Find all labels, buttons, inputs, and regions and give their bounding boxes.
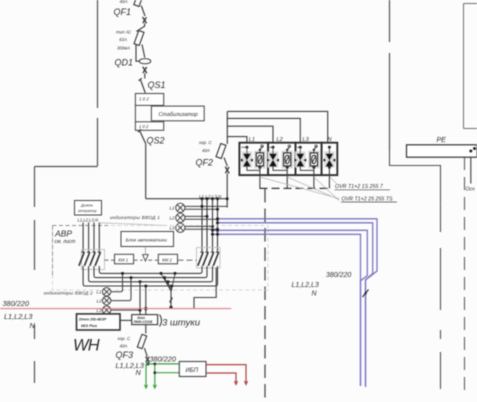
wire meter feed: [139, 282, 141, 315]
panel boundary dashed line (lower left): [34, 167, 36, 384]
breaker QF1: [134, 0, 147, 23]
svg-text:КЕS Plus: КЕS Plus: [81, 324, 97, 328]
wire lamp HL5 to row B: [111, 278, 131, 301]
svg-text:L1: L1: [97, 290, 102, 295]
svg-text:OVR Т1+2 1S 255 7: OVR Т1+2 1S 255 7: [335, 184, 384, 190]
wire linking QS1 and QS2 boxes: [134, 105, 136, 121]
breaker QF3: [137, 334, 149, 362]
leader lines to OVR labels: [260, 177, 339, 201]
wire green return: [155, 372, 180, 374]
brace: [160, 315, 162, 327]
wire transducer to QF3: [145, 325, 147, 334]
diesel generator box: [75, 201, 102, 216]
svg-text:индикаторы ВВОД 1: индикаторы ВВОД 1: [110, 215, 160, 220]
panel boundary dashed line (upper right): [389, 0, 391, 150]
wire QF3 feed: [145, 286, 147, 315]
lamp HL3: [176, 223, 185, 232]
breaker QF2: [216, 143, 229, 173]
svg-text:тип АС: тип АС: [116, 30, 132, 35]
svg-text:Dinno ZID-4ЕЗР: Dinno ZID-4ЕЗР: [79, 317, 107, 321]
svg-text:1 0 2: 1 0 2: [139, 97, 149, 102]
wire lamp HL6 to row C: [111, 282, 140, 310]
svg-text:OVR Т1+2 25 255 ТS: OVR Т1+2 25 255 ТS: [342, 196, 394, 202]
wire QF1 to QD1: [136, 23, 144, 31]
svg-text:Осн: Осн: [466, 187, 475, 193]
surge arrester FV2 (L2): [267, 143, 295, 189]
svg-text:1 0 2: 1 0 2: [139, 124, 149, 129]
wire QF2 output down: [226, 173, 228, 207]
wire outgoing feeder 3 (blue): [213, 230, 368, 386]
lamp HL6: [102, 306, 110, 314]
wire outgoing feeder 2 (blue): [218, 223, 373, 386]
svg-text:Стабилизатор: Стабилизатор: [159, 112, 198, 118]
wire PE bar to main earth: [470, 157, 472, 184]
coil KM2: [158, 254, 177, 263]
svg-text:PE: PE: [437, 137, 447, 144]
wire generator L3: [93, 223, 95, 253]
svg-text:QF2: QF2: [196, 158, 214, 168]
automation block: [121, 232, 174, 247]
twist marker: [170, 297, 173, 303]
wire SPD feed riser: [226, 111, 228, 144]
wire generator L2: [88, 223, 90, 253]
svg-text:АВР: АВР: [54, 229, 72, 239]
svg-text:КМ 1: КМ 1: [118, 258, 128, 263]
ATS enclosure dashed box: [53, 226, 269, 291]
wire SPD feed L3: [227, 118, 300, 147]
contactor KM1 contacts box: [82, 250, 105, 270]
svg-text:3 штуки: 3 штуки: [162, 318, 201, 329]
bus wire L3: [212, 199, 214, 253]
svg-text:L1,L2,L3,N: L1,L2,L3,N: [78, 217, 99, 222]
wire meter to transducer: [120, 319, 132, 321]
bus wire L1: [201, 199, 203, 253]
linkage dashed line: [105, 259, 159, 261]
panel boundary dashed line (upper left): [97, 0, 99, 166]
junction nodes blue feeder taps: [216, 217, 219, 220]
svg-text:L1,L2,L3: L1,L2,L3: [4, 312, 32, 321]
svg-text:N: N: [136, 368, 142, 377]
wire row C: [89, 266, 213, 282]
svg-text:380/220: 380/220: [326, 272, 351, 279]
wire generator L1: [82, 223, 84, 253]
switch QS2 terminal box 1 0 2: [135, 122, 163, 131]
wire lamp HL4 to row A: [111, 273, 123, 291]
svg-text:300мА: 300мА: [117, 46, 130, 51]
svg-text:Дизель: Дизель: [80, 203, 93, 207]
svg-text:Блок автоматики: Блок автоматики: [126, 237, 168, 243]
surge arrester FV4 (N): [322, 143, 338, 189]
svg-text:см. лист: см. лист: [55, 239, 76, 245]
wire SPD feed L2: [227, 126, 273, 147]
PE busbar: [407, 145, 477, 157]
bus wire L2: [206, 199, 208, 253]
svg-text:Элев: Элев: [137, 316, 145, 320]
coil KM1: [115, 254, 134, 263]
switch QS1 terminal box 1 0 2: [135, 94, 163, 106]
annotation red line: [0, 308, 231, 310]
wire SPD feed N: [227, 111, 327, 147]
surge arrester FV1 (L1): [239, 143, 268, 189]
svg-text:хар. С: хар. С: [117, 336, 131, 341]
wire row B: [94, 266, 207, 278]
panel boundary dashed line (lower right): [440, 204, 442, 389]
svg-text:L1: L1: [170, 206, 176, 211]
lamp HL1: [176, 203, 185, 212]
wire red UPS output 1: [206, 365, 246, 384]
wire SPD feed L1: [227, 137, 247, 148]
wire QS2 output to bus: [146, 198, 228, 200]
panel boundary jog (left): [35, 166, 98, 168]
svg-text:L2: L2: [97, 299, 102, 304]
wire lamp HL3 leads: [185, 226, 218, 229]
meter WH box: [77, 314, 121, 330]
wire lamp HL2 leads: [185, 216, 218, 219]
contactor KM2 contacts box: [197, 248, 221, 269]
node QF3 output: [146, 362, 149, 365]
svg-text:40А: 40А: [120, 343, 128, 348]
switch QS2: [138, 129, 146, 143]
stabilizer unit: [151, 106, 204, 121]
switch QS1: [139, 78, 146, 93]
wire generator N: [98, 223, 100, 253]
svg-text:380/220: 380/220: [3, 299, 29, 308]
boundary dashed line center bottom: [264, 189, 266, 402]
svg-text:QS1: QS1: [148, 80, 166, 90]
contactor KM1 contacts: [79, 253, 100, 266]
wire N branch right: [194, 268, 216, 309]
svg-text:N: N: [30, 321, 36, 330]
svg-text:ЛМЖ-С231В: ЛМЖ-С231В: [133, 320, 153, 324]
contactor KM2 contacts: [198, 253, 219, 266]
wire green drop 2: [154, 364, 156, 388]
svg-text:генератор: генератор: [78, 209, 97, 213]
wire red UPS output 2: [206, 373, 236, 384]
boundary dashed line far right: [464, 157, 466, 390]
svg-text:L2: L2: [170, 216, 176, 221]
lamp HL2: [176, 213, 185, 222]
svg-text:63А: 63А: [119, 37, 127, 42]
svg-text:L3: L3: [170, 226, 176, 231]
wire green drop 1: [145, 364, 147, 388]
wire outgoing feeder 1 (blue): [218, 219, 378, 387]
wire lamp HL1 leads: [185, 206, 228, 209]
adjacent cabinet outline top right: [464, 4, 477, 129]
bus wire N: [217, 199, 219, 253]
svg-text:40А: 40А: [120, 0, 128, 4]
wire QD1 to QS1: [144, 73, 146, 78]
panel boundary jog (right): [390, 150, 441, 204]
transducer box: [132, 315, 158, 325]
mechanical linkage symbol: [143, 255, 149, 261]
svg-text:L1,L2,L3: L1,L2,L3: [292, 282, 319, 289]
wire QS2 output down: [145, 144, 147, 199]
control bundle fan: [161, 273, 175, 291]
RCD QD1: [134, 30, 151, 73]
wire automation block to linkage: [144, 247, 146, 255]
svg-text:QD1: QD1: [115, 58, 134, 68]
svg-text:380/220: 380/220: [150, 354, 176, 363]
svg-text:КМ 2: КМ 2: [162, 258, 172, 263]
wire green phase to UPS: [146, 363, 179, 365]
svg-text:QF1: QF1: [114, 7, 132, 17]
svg-text:индикаторы ВВОД 2: индикаторы ВВОД 2: [44, 290, 93, 295]
wire row A: [99, 266, 202, 273]
lamp HL5: [102, 296, 110, 304]
leader line to lamps: [100, 223, 167, 226]
surge arrester FV3 (L3): [294, 143, 321, 189]
svg-text:40А: 40А: [202, 148, 210, 153]
svg-text:QF3: QF3: [116, 350, 134, 360]
cable marker on feeder bundle: [363, 290, 369, 298]
SPD earth dashed bus: [260, 187, 332, 189]
svg-text:хар. С: хар. С: [198, 140, 212, 145]
UPS box: [179, 362, 206, 377]
wire row D: [83, 266, 217, 286]
lamp HL4: [102, 288, 110, 296]
svg-text:ИБП: ИБП: [186, 368, 199, 374]
svg-text:QS2: QS2: [147, 136, 165, 146]
wire control bundle down: [170, 291, 172, 307]
svg-text:WH: WH: [73, 337, 100, 355]
wire outgoing feeder 4 (blue): [213, 234, 361, 386]
junction nodes on feed row: [201, 197, 204, 200]
node on PE bar: [469, 150, 472, 153]
